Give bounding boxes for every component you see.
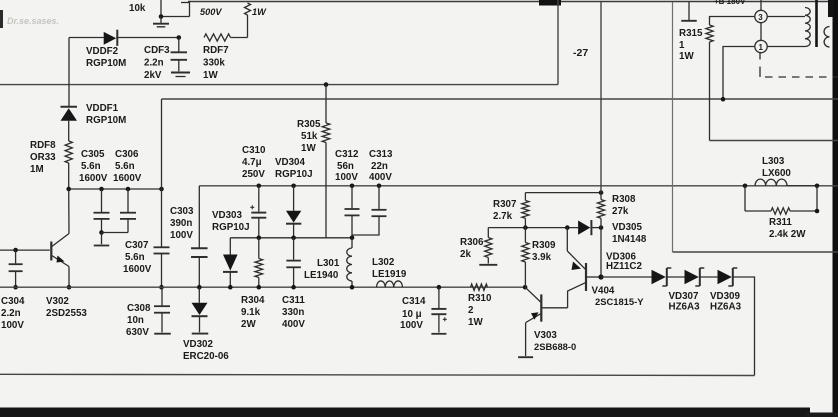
label C306 <box>113 149 142 184</box>
svg-text:R308: R308 <box>612 194 636 205</box>
label R304 <box>241 295 265 330</box>
capacitor C304 <box>9 250 23 287</box>
label R307 <box>493 199 517 222</box>
svg-text:1W: 1W <box>203 70 218 81</box>
wire to riser <box>161 16 190 18</box>
svg-text:VD305: VD305 <box>612 222 643 233</box>
wire C305-C306 bottoms <box>102 232 129 234</box>
label VD303 <box>212 210 250 233</box>
diode VD303 <box>223 238 238 287</box>
svg-text:R304: R304 <box>241 295 265 306</box>
label VD307 <box>669 291 701 313</box>
inductor L303 <box>755 179 817 186</box>
svg-text:22n: 22n <box>371 161 388 172</box>
svg-text:VD302: VD302 <box>183 339 214 350</box>
svg-text:1: 1 <box>759 43 764 52</box>
svg-text:LE1919: LE1919 <box>372 269 407 280</box>
junction bus L301 <box>350 285 355 290</box>
svg-text:100V: 100V <box>170 230 193 241</box>
capacitor C311 <box>286 238 301 287</box>
junction bus x161 <box>159 285 164 290</box>
label C313 <box>369 149 393 183</box>
svg-text:10k: 10k <box>129 3 146 14</box>
wire VDDF2 corner down <box>68 38 70 107</box>
svg-text:RGP10M: RGP10M <box>86 58 126 69</box>
svg-text:1W: 1W <box>301 143 316 154</box>
resistor R306 <box>479 228 497 265</box>
wire main bus y287 <box>0 286 525 288</box>
label +B partial <box>714 0 746 6</box>
label VDDF2 <box>86 46 126 69</box>
capacitor CDF3 <box>171 38 190 77</box>
svg-text:630V: 630V <box>126 327 149 338</box>
label VD304 <box>275 157 313 180</box>
wire y140 right <box>710 140 838 142</box>
svg-text:C306: C306 <box>115 149 139 160</box>
resistor R311 branch <box>745 186 817 214</box>
resistor R304 <box>255 238 263 287</box>
wire x601 lower <box>600 228 602 277</box>
svg-text:330n: 330n <box>282 307 304 318</box>
junction lineC C313 <box>377 184 382 189</box>
svg-text:330k: 330k <box>203 58 225 69</box>
svg-text:VD307: VD307 <box>669 291 700 302</box>
svg-text:RGP10J: RGP10J <box>212 222 250 233</box>
diode VD304 <box>286 186 301 238</box>
junction bus C314 <box>437 285 442 290</box>
label CDF3 <box>144 45 170 81</box>
junction R311 right <box>815 209 820 214</box>
svg-text:100V: 100V <box>335 172 358 183</box>
resistor R305 <box>322 85 330 238</box>
svg-text:5.6n: 5.6n <box>115 161 135 172</box>
junction bus VD303 <box>228 285 233 290</box>
capacitor C303 <box>191 186 208 287</box>
svg-text:+B 180V: +B 180V <box>714 0 746 6</box>
svg-text:51k: 51k <box>301 131 318 142</box>
wire y227.6 <box>488 227 578 229</box>
label C312 <box>335 149 359 183</box>
svg-text:1600V: 1600V <box>113 173 142 184</box>
label V303 <box>534 330 576 352</box>
junction node C310 <box>257 236 262 241</box>
junction V404 collector <box>598 274 603 279</box>
svg-text:100V: 100V <box>400 320 423 331</box>
label VDDF1 <box>86 103 126 126</box>
wire y189 <box>69 188 162 190</box>
wire line C <box>199 185 838 187</box>
wire chain to corner <box>733 277 755 376</box>
svg-text:R310: R310 <box>468 293 492 304</box>
label C304 <box>1 296 25 331</box>
svg-text:C312: C312 <box>335 149 359 160</box>
resistor R308 <box>597 193 604 228</box>
svg-text:V302: V302 <box>46 296 69 307</box>
svg-text:C307: C307 <box>125 240 149 251</box>
node on line A at x326 <box>324 82 329 87</box>
svg-text:5.6n: 5.6n <box>125 252 145 263</box>
label R310 <box>468 293 492 328</box>
label VD305 <box>612 222 647 245</box>
svg-text:C303: C303 <box>170 206 194 217</box>
svg-text:500V: 500V <box>200 7 222 17</box>
junction y189 x69 <box>66 187 71 192</box>
svg-text:1M: 1M <box>30 164 44 175</box>
junction CDF3 tap <box>177 35 182 40</box>
label VD302 <box>183 339 229 362</box>
svg-text:250V: 250V <box>242 169 265 180</box>
svg-text:R305: R305 <box>297 119 321 130</box>
cap stub x689 <box>681 2 697 21</box>
label C311 <box>282 295 305 330</box>
node dot top-left <box>159 14 164 19</box>
dashed core line <box>760 67 838 78</box>
svg-text:C311: C311 <box>282 295 305 306</box>
junction base wire <box>13 248 18 253</box>
svg-text:2.2n: 2.2n <box>1 308 21 319</box>
junction C305 bottom <box>99 230 104 235</box>
svg-text:2kV: 2kV <box>144 70 162 81</box>
junction bus C304 <box>13 285 18 290</box>
zener VD309 <box>718 268 738 286</box>
svg-text:VDDF2: VDDF2 <box>86 46 119 57</box>
wire x161 down <box>161 99 163 247</box>
label RDF7 <box>203 45 229 81</box>
wire stub top at x=161 <box>160 0 162 17</box>
transistor V404 <box>567 228 601 308</box>
label R315 <box>679 28 703 62</box>
wire base V302 <box>0 249 50 251</box>
svg-text:27k: 27k <box>612 206 629 217</box>
label 1W top <box>252 7 267 17</box>
svg-text:R311: R311 <box>769 217 792 228</box>
svg-text:1W: 1W <box>679 51 694 62</box>
svg-text:400V: 400V <box>369 172 392 183</box>
transformer secondary winding <box>824 27 829 48</box>
svg-text:VD304: VD304 <box>275 157 306 168</box>
svg-text:HZ6A3: HZ6A3 <box>669 302 701 313</box>
junction bus C303 <box>197 285 202 290</box>
svg-text:V303: V303 <box>534 330 557 341</box>
svg-text:1600V: 1600V <box>123 264 152 275</box>
svg-text:Dr.se.sases.: Dr.se.sases. <box>7 16 59 26</box>
wire node y237.8 <box>230 237 352 239</box>
diode VDDF1 <box>61 107 78 141</box>
label L303 <box>762 156 791 179</box>
svg-text:2.2n: 2.2n <box>144 58 164 69</box>
transformer primary winding <box>805 8 810 47</box>
label VD306 <box>606 251 642 272</box>
svg-text:C313: C313 <box>369 149 393 160</box>
svg-text:10 μ: 10 μ <box>402 309 422 320</box>
partial resistor top <box>245 3 251 38</box>
wire y252 right <box>673 251 838 253</box>
junction lineC C310 <box>257 184 262 189</box>
junction bus C311 <box>291 285 296 290</box>
label C308 <box>126 303 151 338</box>
label 10k <box>129 3 146 14</box>
junction lineC L303 right <box>815 184 820 189</box>
transistor V302 <box>51 189 69 287</box>
svg-text:ERC20-06: ERC20-06 <box>183 351 229 362</box>
wire line A <box>0 84 558 86</box>
label 500V <box>200 7 222 17</box>
svg-text:100V: 100V <box>1 320 24 331</box>
diode VD302 <box>192 287 209 333</box>
junction bus R304 <box>257 285 262 290</box>
wire pin3 to winding <box>767 16 805 18</box>
junction bus V302 emitter <box>67 285 72 290</box>
svg-text:4.7μ: 4.7μ <box>242 157 262 168</box>
label R311 <box>769 217 806 240</box>
wire x601 upper <box>600 2 602 193</box>
svg-text:VDDF1: VDDF1 <box>86 103 119 114</box>
wire y37.5 left of VDDF2 <box>69 37 104 39</box>
svg-text:R306: R306 <box>460 237 484 248</box>
label R309 <box>532 240 556 263</box>
svg-text:9.1k: 9.1k <box>241 307 261 318</box>
svg-text:1: 1 <box>679 40 685 51</box>
capacitor C312 <box>345 186 360 238</box>
svg-text:V404: V404 <box>592 286 615 297</box>
label V302 <box>46 296 87 319</box>
junction node C312 <box>350 236 355 241</box>
svg-text:HZ6A3: HZ6A3 <box>710 302 742 313</box>
svg-text:LE1940: LE1940 <box>304 270 339 281</box>
resistor R309 <box>522 228 529 288</box>
svg-text:1N4148: 1N4148 <box>612 234 647 245</box>
capacitor C308 <box>154 287 171 334</box>
label C303 <box>170 206 194 241</box>
label -27 <box>573 47 588 59</box>
diode VD305 <box>578 220 601 235</box>
label C307 <box>123 240 152 275</box>
zener VD307 <box>685 268 718 286</box>
pin circle 3 <box>755 0 767 40</box>
junction y189 x161 <box>159 187 164 192</box>
svg-text:RDF8: RDF8 <box>30 140 56 151</box>
junction y227 R307 <box>523 225 528 230</box>
junction y192 x601 <box>599 190 604 195</box>
pin circle 1 <box>755 40 767 59</box>
label C305 <box>79 149 108 184</box>
svg-text:56n: 56n <box>337 161 354 172</box>
junction lineC L303 left <box>743 184 748 189</box>
label L302 <box>372 257 407 280</box>
svg-text:400V: 400V <box>282 319 305 330</box>
resistor RDF8 <box>65 141 72 189</box>
svg-text:RGP10M: RGP10M <box>86 115 126 126</box>
resistor R315 <box>706 17 755 141</box>
junction lineC C312 <box>350 184 355 189</box>
svg-text:R309: R309 <box>532 240 556 251</box>
svg-text:L303: L303 <box>762 156 785 167</box>
wire line B <box>162 98 838 100</box>
watermark <box>0 10 59 28</box>
svg-text:R315: R315 <box>679 28 703 39</box>
wire pin1 left <box>723 47 755 100</box>
svg-text:OR33: OR33 <box>30 152 56 163</box>
svg-text:5.6n: 5.6n <box>81 161 101 172</box>
svg-text:2.4k 2W: 2.4k 2W <box>769 229 806 240</box>
capacitor C305 <box>94 189 110 233</box>
capacitor C313 <box>353 186 387 238</box>
svg-text:2SB688-0: 2SB688-0 <box>534 341 576 352</box>
label V404 <box>592 286 645 308</box>
label R305 <box>297 119 321 154</box>
right border bar <box>828 0 838 417</box>
wire x672 vertical <box>672 2 674 252</box>
capacitor C306 <box>120 189 136 233</box>
zener VD306 <box>652 268 685 286</box>
label C314 <box>400 296 426 331</box>
svg-text:2: 2 <box>468 305 474 316</box>
svg-text:2.7k: 2.7k <box>493 211 513 222</box>
transistor V303 <box>518 287 568 357</box>
junction y189 c306 <box>126 187 131 192</box>
svg-text:VD303: VD303 <box>212 210 243 221</box>
ground stub under C305 <box>94 233 110 246</box>
label RDF8 <box>30 140 56 175</box>
svg-text:1600V: 1600V <box>79 173 108 184</box>
svg-text:C310: C310 <box>242 145 266 156</box>
junction y227 x601 <box>599 225 604 230</box>
svg-text:L302: L302 <box>372 257 395 268</box>
svg-text:C305: C305 <box>81 149 105 160</box>
svg-text:2SD2553: 2SD2553 <box>46 308 87 319</box>
junction y227 emitter <box>565 225 570 230</box>
svg-text:2W: 2W <box>241 319 256 330</box>
transformer core <box>815 0 818 47</box>
svg-text:RDF7: RDF7 <box>203 45 229 56</box>
label C310 <box>242 145 266 180</box>
svg-text:C304: C304 <box>1 296 25 307</box>
inductor L302 <box>377 281 403 287</box>
capacitor C310 <box>250 186 266 238</box>
junction lineC VD304 <box>291 184 296 189</box>
svg-text:L301: L301 <box>317 258 340 269</box>
svg-text:1W: 1W <box>468 317 483 328</box>
svg-text:C308: C308 <box>127 303 151 314</box>
svg-text:C314: C314 <box>402 296 426 307</box>
resistor R307 <box>522 193 529 228</box>
svg-text:1W: 1W <box>252 7 267 17</box>
junction lineB x723 <box>721 97 726 102</box>
svg-text:2k: 2k <box>460 249 471 260</box>
svg-text:10n: 10n <box>127 315 144 326</box>
resistor RDF7 <box>204 34 248 41</box>
junction y189 c305 <box>99 187 104 192</box>
svg-text:R307: R307 <box>493 199 517 210</box>
svg-text:2SC1815-Y: 2SC1815-Y <box>595 296 644 307</box>
svg-text:390n: 390n <box>170 218 192 229</box>
svg-text:VD309: VD309 <box>710 291 741 302</box>
wire pin1 to winding <box>767 46 805 48</box>
riser wire with hook <box>181 3 190 17</box>
resistor R310 <box>471 284 488 290</box>
wire diode chain <box>601 276 652 278</box>
label R306 <box>460 237 484 260</box>
svg-text:-27: -27 <box>573 47 588 59</box>
ground below 10k node <box>153 17 169 27</box>
junction node VD304 <box>291 236 296 241</box>
svg-text:CDF3: CDF3 <box>144 45 170 56</box>
top border line <box>188 0 838 6</box>
capacitor C307 <box>154 247 170 287</box>
label VD309 <box>710 291 742 313</box>
svg-text:RGP10J: RGP10J <box>275 169 313 180</box>
bottom black bar <box>0 408 838 417</box>
svg-text:LX600: LX600 <box>762 168 791 179</box>
label L301 <box>304 258 340 281</box>
diode VDDF2 <box>104 30 179 46</box>
junction bus R309 <box>523 285 528 290</box>
wire y192.6 <box>525 192 601 194</box>
svg-text:HZ11C2: HZ11C2 <box>606 261 642 272</box>
wire bottom return <box>0 374 755 375</box>
box A right edge <box>557 0 559 85</box>
inductor L301 <box>347 238 352 287</box>
capacitor C314 <box>431 287 446 334</box>
label R308 <box>612 194 636 217</box>
svg-text:3.9k: 3.9k <box>532 252 552 263</box>
svg-text:3: 3 <box>758 13 763 22</box>
